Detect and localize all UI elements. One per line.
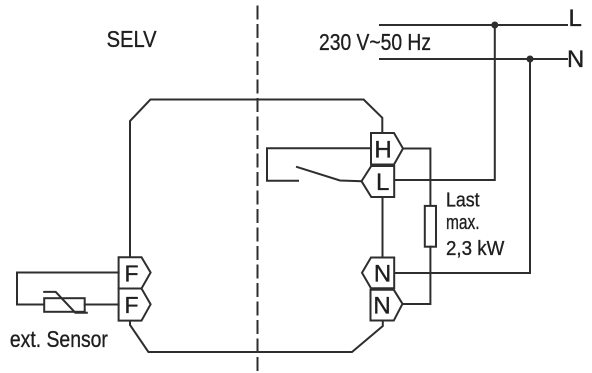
node junction on N line bbox=[527, 56, 534, 63]
svg-text:SELV: SELV bbox=[107, 26, 158, 52]
wire F1 loop to sensor bbox=[17, 273, 119, 305]
wire H terminal to load resistor bbox=[403, 149, 430, 206]
SELV/mains separation dashed line bbox=[257, 0, 259, 373]
terminal L pentagon bbox=[362, 166, 395, 197]
node junction on L line bbox=[491, 22, 498, 29]
terminal N1 pentagon bbox=[362, 258, 394, 289]
terminal F1 pentagon bbox=[119, 257, 151, 288]
svg-text:H: H bbox=[374, 136, 391, 163]
svg-text:N: N bbox=[374, 261, 391, 288]
svg-text:ext. Sensor: ext. Sensor bbox=[10, 326, 108, 352]
terminal H pentagon bbox=[371, 133, 403, 165]
wire load resistor to N2 terminal bbox=[403, 247, 431, 304]
svg-text:230 V~50 Hz: 230 V~50 Hz bbox=[319, 29, 431, 55]
sensor thermistor diagonal strike bbox=[44, 292, 87, 313]
wire L supply line bbox=[380, 24, 567, 26]
device outline upper part: left edge, top edge, right edge bbox=[130, 100, 382, 258]
wire sensor to F2 bbox=[85, 304, 119, 306]
svg-text:N: N bbox=[567, 46, 584, 73]
wire N supply line bbox=[380, 58, 567, 60]
device outline right edge between L and N terminals bbox=[382, 197, 384, 258]
wire from L junction down to L terminal bbox=[394, 25, 495, 180]
svg-text:F: F bbox=[124, 260, 138, 286]
svg-text:2,3 kW: 2,3 kW bbox=[446, 238, 504, 260]
switch blade from L terminal tip bbox=[297, 167, 362, 181]
terminal F2 pentagon bbox=[119, 289, 151, 321]
svg-text:L: L bbox=[569, 5, 582, 32]
wire from N junction down to N terminal bbox=[394, 59, 530, 273]
sensor thermistor body bbox=[44, 298, 84, 312]
switch fixed-contact U wire from H bbox=[267, 148, 371, 181]
svg-text:N: N bbox=[373, 293, 390, 320]
svg-text:max.: max. bbox=[446, 212, 480, 234]
svg-text:F: F bbox=[124, 292, 138, 318]
svg-text:Last: Last bbox=[446, 189, 480, 211]
resistor load (Last max. 2,3 kW) bbox=[425, 206, 436, 247]
device outline bottom edge with bevel corners bbox=[130, 321, 383, 353]
terminal N2 pentagon bbox=[371, 290, 403, 321]
svg-text:L: L bbox=[376, 169, 389, 196]
